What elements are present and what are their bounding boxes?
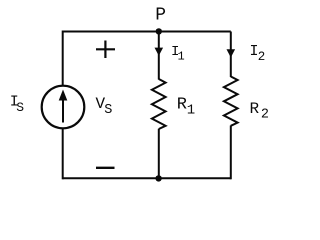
current source IS [42,86,85,129]
svg-text:1: 1 [178,50,185,64]
svg-text:R: R [177,95,187,114]
svg-text:S: S [104,103,112,118]
wire bottom rail [63,177,231,179]
current arrow I2 [227,49,236,57]
svg-text:2: 2 [258,50,266,64]
resistor R2 [224,77,238,126]
svg-text:S: S [16,100,24,115]
resistor R1 [152,79,166,129]
label R2 [250,100,270,122]
label I1 [171,44,185,63]
polarity plus sign [96,41,115,59]
svg-text:1: 1 [187,103,195,119]
label VS [96,95,113,118]
svg-text:P: P [155,6,166,26]
wire right branch upper [230,32,232,78]
wire top rail [63,31,231,33]
label R1 [177,95,195,118]
svg-text:2: 2 [261,107,269,122]
label IS [10,94,24,115]
wire left branch lower [62,128,64,180]
current arrow I1 [155,48,164,56]
wire left branch upper [62,31,64,87]
wire right branch lower [230,126,232,180]
wire middle branch lower [158,129,160,179]
wire middle branch upper [158,32,160,80]
polarity minus sign [96,167,115,169]
svg-text:R: R [250,100,260,118]
node P junction dot [156,28,162,34]
label I2 [250,43,266,64]
bottom junction dot [155,175,161,181]
